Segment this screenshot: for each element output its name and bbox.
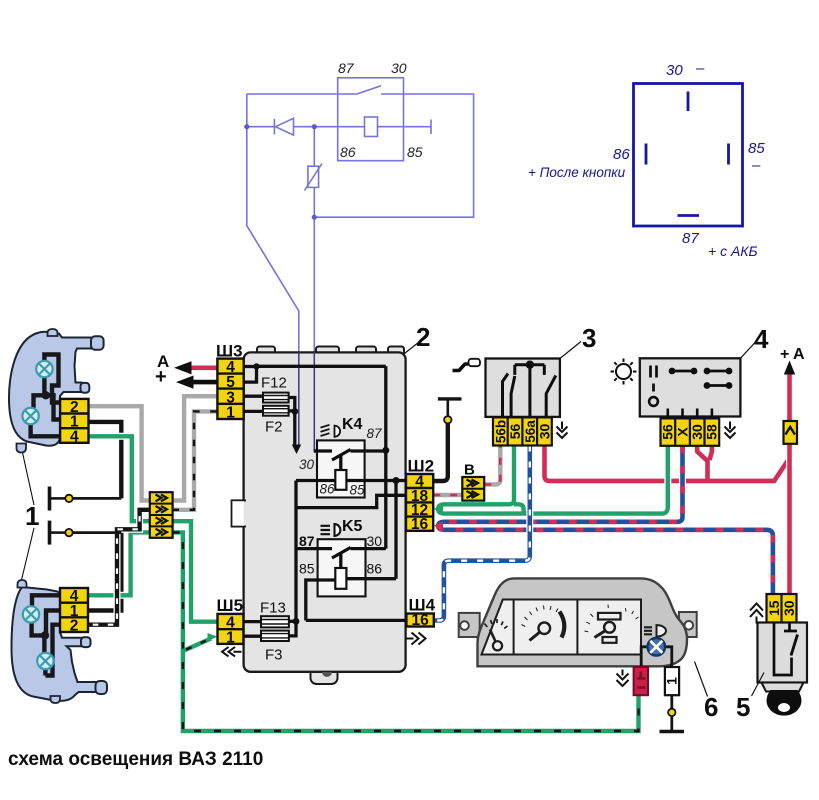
svg-text:схема освещения ВАЗ 2110: схема освещения ВАЗ 2110 (8, 749, 263, 770)
svg-text:4: 4 (70, 428, 79, 445)
svg-text:А: А (793, 346, 805, 363)
wire from added relay into block to K4 socket 30 (thin) (299, 352, 315, 450)
block bottom notch (322, 672, 332, 677)
symbol continuation down left of red connector (617, 670, 629, 687)
wire lamp leads (641, 647, 672, 667)
wire left vertical to K4 area (247, 94, 299, 446)
svg-text:86: 86 (367, 561, 383, 577)
wire Ш5-4 to F13 (243, 620, 261, 623)
wire down to K4 pin30 (313, 217, 315, 451)
switch 4 pin row (661, 418, 720, 445)
symbol continuation right below Ш4 (407, 633, 426, 645)
wire green headlightBottom-4 to junction r4 (89, 532, 150, 595)
node K4-87 bus junction (382, 447, 389, 454)
ignition skirt (762, 683, 804, 692)
svg-text:+ После кнопки: + После кнопки (528, 165, 626, 180)
svg-text:58: 58 (704, 424, 720, 440)
wire K4-86 net vertical (294, 481, 297, 622)
wire F12 output (289, 398, 295, 412)
wire K5 coil 86 lead (346, 577, 396, 580)
mounting block 2 body (244, 352, 406, 671)
gauge fuel/temp (485, 619, 508, 650)
svg-text:87: 87 (367, 426, 383, 441)
headlight bottom bottom tab (51, 696, 61, 703)
cluster right ear (679, 612, 697, 637)
svg-text:1: 1 (25, 501, 39, 531)
svg-text:+: + (780, 346, 789, 363)
svg-text:5: 5 (736, 692, 750, 722)
bulb low beam top (22, 408, 38, 424)
cluster ground (670, 695, 673, 709)
arrow green into Ш2-12 (434, 505, 443, 514)
relay K5 (318, 539, 366, 596)
pointer line to 2 (405, 342, 420, 354)
gauge tachometer (585, 605, 639, 643)
svg-text:85: 85 (407, 144, 423, 160)
headlight top tab (48, 329, 58, 336)
wire K4 coil 85 lead to Ш2-4 (346, 479, 406, 482)
block tab top 1 (257, 347, 275, 355)
arrow +A (784, 361, 795, 375)
svg-text:30: 30 (689, 424, 705, 440)
block tab bottom (311, 664, 338, 684)
block tab top 2 (316, 347, 339, 355)
pin 86 tick (645, 144, 648, 165)
svg-text:3: 3 (582, 323, 596, 353)
ignition pin row 15/30 (767, 594, 797, 623)
svg-text:Ш4: Ш4 (409, 596, 436, 615)
wire green junction r3 to Ш5-4 (173, 521, 218, 622)
ignition key barrel (767, 690, 802, 716)
wire branch to Ш2-18 (296, 495, 406, 507)
junction connector block (front harness) (150, 492, 173, 538)
wire blue-white switch3-56a to Ш4-16 (434, 446, 530, 621)
wire Ш3-4 stub to bus (244, 365, 257, 368)
headlight top body (9, 332, 92, 446)
K5 coil (335, 568, 346, 589)
headlight bottom body (12, 587, 98, 701)
svg-text:85: 85 (350, 483, 366, 498)
wire F3 output (289, 621, 296, 636)
pointer line to 4 (740, 343, 755, 359)
headlight top arm knob 2 (81, 383, 90, 393)
svg-text:87: 87 (682, 230, 699, 247)
cluster body (478, 578, 688, 666)
bulb high beam top (36, 361, 52, 377)
icon high beam indicator (644, 627, 652, 634)
arrow into K4 socket 30 (292, 445, 301, 455)
wire F2 output (289, 409, 295, 412)
svg-text:87: 87 (299, 533, 315, 549)
svg-text:30: 30 (666, 62, 683, 79)
wire gray-red connector B to switch3-56b (484, 446, 500, 485)
relay box (added relay) (338, 78, 404, 161)
svg-text:1: 1 (226, 629, 235, 646)
svg-text:+: + (155, 366, 167, 388)
wire K5 contact lead 30 (351, 547, 386, 550)
wire green-black branch to Ш5-1 (183, 639, 211, 652)
K4 coil (335, 470, 346, 490)
wire pin1 to bulbs junction (32, 611, 62, 654)
icon switch lever (453, 364, 471, 371)
svg-text:X: X (674, 427, 690, 437)
svg-text:15: 15 (766, 600, 782, 616)
node bus junction at Ш3 (253, 363, 259, 369)
wire Ш3-3 to F12 (244, 395, 263, 398)
svg-text:85: 85 (748, 140, 765, 157)
wire fuse output down to arrow at K4-30 (293, 411, 296, 445)
svg-text:86: 86 (340, 144, 356, 160)
terminal 85 bar (430, 120, 432, 135)
bulb low beam bottom (37, 653, 53, 669)
wire F13 output (289, 620, 296, 623)
svg-text:+ с АКБ: + с АКБ (708, 243, 758, 259)
wire top bus of added relay (247, 94, 474, 217)
svg-text:K4: K4 (342, 416, 363, 433)
wire black headlightBottom-1 to ground G2 (89, 533, 122, 611)
K4 armature link (339, 455, 342, 470)
svg-text:K5: K5 (342, 518, 363, 535)
pointer line to 5 (752, 673, 765, 697)
svg-text:30: 30 (536, 424, 552, 440)
wire black arrow from Ш3-5 (192, 380, 217, 385)
relay contact blade (357, 86, 381, 94)
cluster left ear (459, 613, 480, 637)
svg-text:30: 30 (367, 533, 383, 549)
svg-text:–: – (695, 60, 705, 77)
connector red Ш1 (634, 667, 648, 695)
connector white 1 (665, 667, 679, 695)
svg-text:–: – (751, 157, 761, 174)
wire red Y-merge from switch4 pins 30,58 (697, 446, 712, 481)
wire gray headlightTop-2 to junction r1 (89, 406, 150, 500)
gauge speedometer (522, 606, 565, 641)
wire black headlightTop-1 to ground G1 (89, 422, 122, 499)
wire Ш3-5 elbow to bus (244, 367, 257, 383)
svg-text:56: 56 (507, 424, 523, 440)
wire K4 contact lead 87 (351, 449, 386, 452)
wire Ш3-1 to F2 (244, 410, 263, 413)
wire bulb2 to pin 4 (31, 425, 62, 437)
svg-text:F2: F2 (265, 419, 283, 436)
svg-text:1: 1 (226, 405, 235, 422)
wire green switch3-56 / Ш2-12 / switch4-56 loop (438, 446, 668, 514)
headlight bottom connector 4/1/2 (60, 588, 88, 632)
fuse F12 (261, 393, 289, 641)
svg-text:56: 56 (660, 424, 676, 440)
indicator lamp (blue) (648, 638, 666, 656)
ignition body (758, 623, 808, 683)
headlight bottom top tab (18, 580, 27, 588)
wire K4 coil 86 lead (296, 479, 335, 482)
svg-text:87: 87 (338, 60, 355, 76)
svg-text:F13: F13 (260, 600, 286, 617)
svg-text:16: 16 (411, 516, 429, 533)
wire coil line (247, 126, 431, 128)
pin 30 tick (687, 92, 690, 112)
wire green headlightTop-4 to junction r3 (89, 436, 150, 521)
pointer line to 3 (560, 342, 581, 359)
wire coil return V2 (394, 481, 397, 579)
wire red A arrow from Ш3-4 (190, 365, 217, 370)
wire green-black junction r4 to instrument cluster (long bottom run) (173, 532, 639, 731)
symbol continuation down right of switch4 pins (725, 422, 736, 439)
wire black Ш2-4 to body ground (433, 424, 448, 482)
wire bulb1/bulb2 junction to pin 1 (34, 378, 63, 420)
wire pin4 to bulb1 (32, 595, 62, 606)
wire gray-black junction r2 to Ш3-1 (173, 411, 218, 509)
wire bus vertical V1 (87/30 feed) (384, 366, 387, 548)
pin 87 tick (678, 214, 700, 217)
svg-text:Ш5: Ш5 (217, 596, 244, 615)
block tab top 4 (388, 347, 404, 355)
svg-text:30: 30 (781, 600, 797, 616)
ground G2 (48, 521, 52, 545)
fuse F2 (263, 406, 289, 416)
K4 contact blade (332, 450, 351, 461)
arrow red into Ш2-16 (434, 521, 443, 530)
connector B (462, 462, 484, 501)
cluster panel (482, 600, 642, 655)
relay coil (365, 117, 378, 137)
node F2 junction (291, 408, 298, 415)
node bulbs junction (41, 631, 49, 639)
diode VD (273, 119, 275, 135)
svg-text:4: 4 (754, 324, 769, 354)
icon high beam at K5 (321, 524, 341, 536)
wire blue-red switch4-X / Ш2-16 / ignition-15 loop (438, 446, 773, 594)
wire Ш5-1 to F3 (243, 635, 261, 638)
bulb high beam bottom (23, 606, 39, 622)
icon lamp with rays (611, 359, 637, 385)
fuse F13 (261, 616, 289, 627)
svg-text:F3: F3 (265, 647, 283, 664)
svg-text:2: 2 (70, 618, 79, 635)
block tab top 3 (356, 347, 376, 355)
svg-text:16: 16 (411, 612, 429, 629)
svg-text:В: В (464, 462, 475, 479)
wire top bus (257, 365, 386, 368)
headlight top arm knob 1 (91, 336, 104, 350)
symbol continuation down right of switch3 pins (557, 422, 568, 439)
headlight top bottom tab (17, 444, 27, 453)
wire red switch3-30 to switch4-30/58 and to +A feed (545, 446, 790, 481)
svg-text:1: 1 (664, 677, 680, 685)
pointer line to 6 (695, 662, 708, 697)
K5 armature link (339, 553, 342, 568)
body ground near switch 3 (444, 416, 451, 423)
ground G1 (48, 487, 52, 511)
svg-text:2: 2 (416, 322, 430, 352)
svg-text:30: 30 (391, 60, 407, 76)
icon low beam at K4 (321, 425, 341, 437)
wire gray junction r1 to Ш3-3 (173, 396, 218, 500)
svg-text:Ш2: Ш2 (408, 457, 435, 476)
headlight bottom arm knob 2 (96, 681, 108, 694)
wire red +A vertical through connector to ignition-30 (786, 371, 793, 594)
symbol continuation left below Ш5 (222, 647, 242, 656)
single connector on +A wire (784, 421, 798, 444)
wire black-white junction r2 to headlightBottom-2 (89, 510, 150, 625)
svg-text:86: 86 (320, 482, 336, 497)
wire gray-red Ш2-18 to connector B (433, 493, 462, 497)
wire pin2 to bulb2 (45, 625, 62, 676)
wire K5 contact lead 87 (296, 547, 332, 550)
pin 85 tick (727, 144, 730, 165)
fuse F3 (261, 631, 289, 641)
svg-text:85: 85 (299, 561, 315, 577)
svg-text:F12: F12 (261, 375, 287, 392)
cluster ear holes (460, 621, 469, 630)
wire K4 contact lead 30 (314, 449, 332, 452)
relay K4 (317, 440, 365, 497)
node coil return junction (393, 477, 400, 484)
headlight top connector 2/1/4 (60, 399, 88, 443)
resistor/fuse symbol (313, 127, 315, 218)
node F13 junction (293, 618, 300, 625)
symbol continuation up left of ignition (750, 604, 763, 624)
svg-text:30: 30 (299, 457, 315, 472)
wire bulb1 to pin 2 (44, 355, 62, 403)
svg-text:86: 86 (613, 146, 630, 163)
node junction dots blue (244, 124, 317, 220)
svg-text:Ш3: Ш3 (216, 342, 243, 361)
K5 contact blade (332, 548, 351, 559)
headlight bottom arm knob 1 (81, 637, 91, 647)
node bulb junction (42, 391, 50, 399)
relay base box (634, 84, 743, 227)
wire K5 coil 85 lead to Ш4-16 (306, 580, 406, 620)
block left notch (232, 500, 246, 526)
switch 3 pin row (493, 417, 552, 445)
svg-text:6: 6 (704, 692, 718, 722)
